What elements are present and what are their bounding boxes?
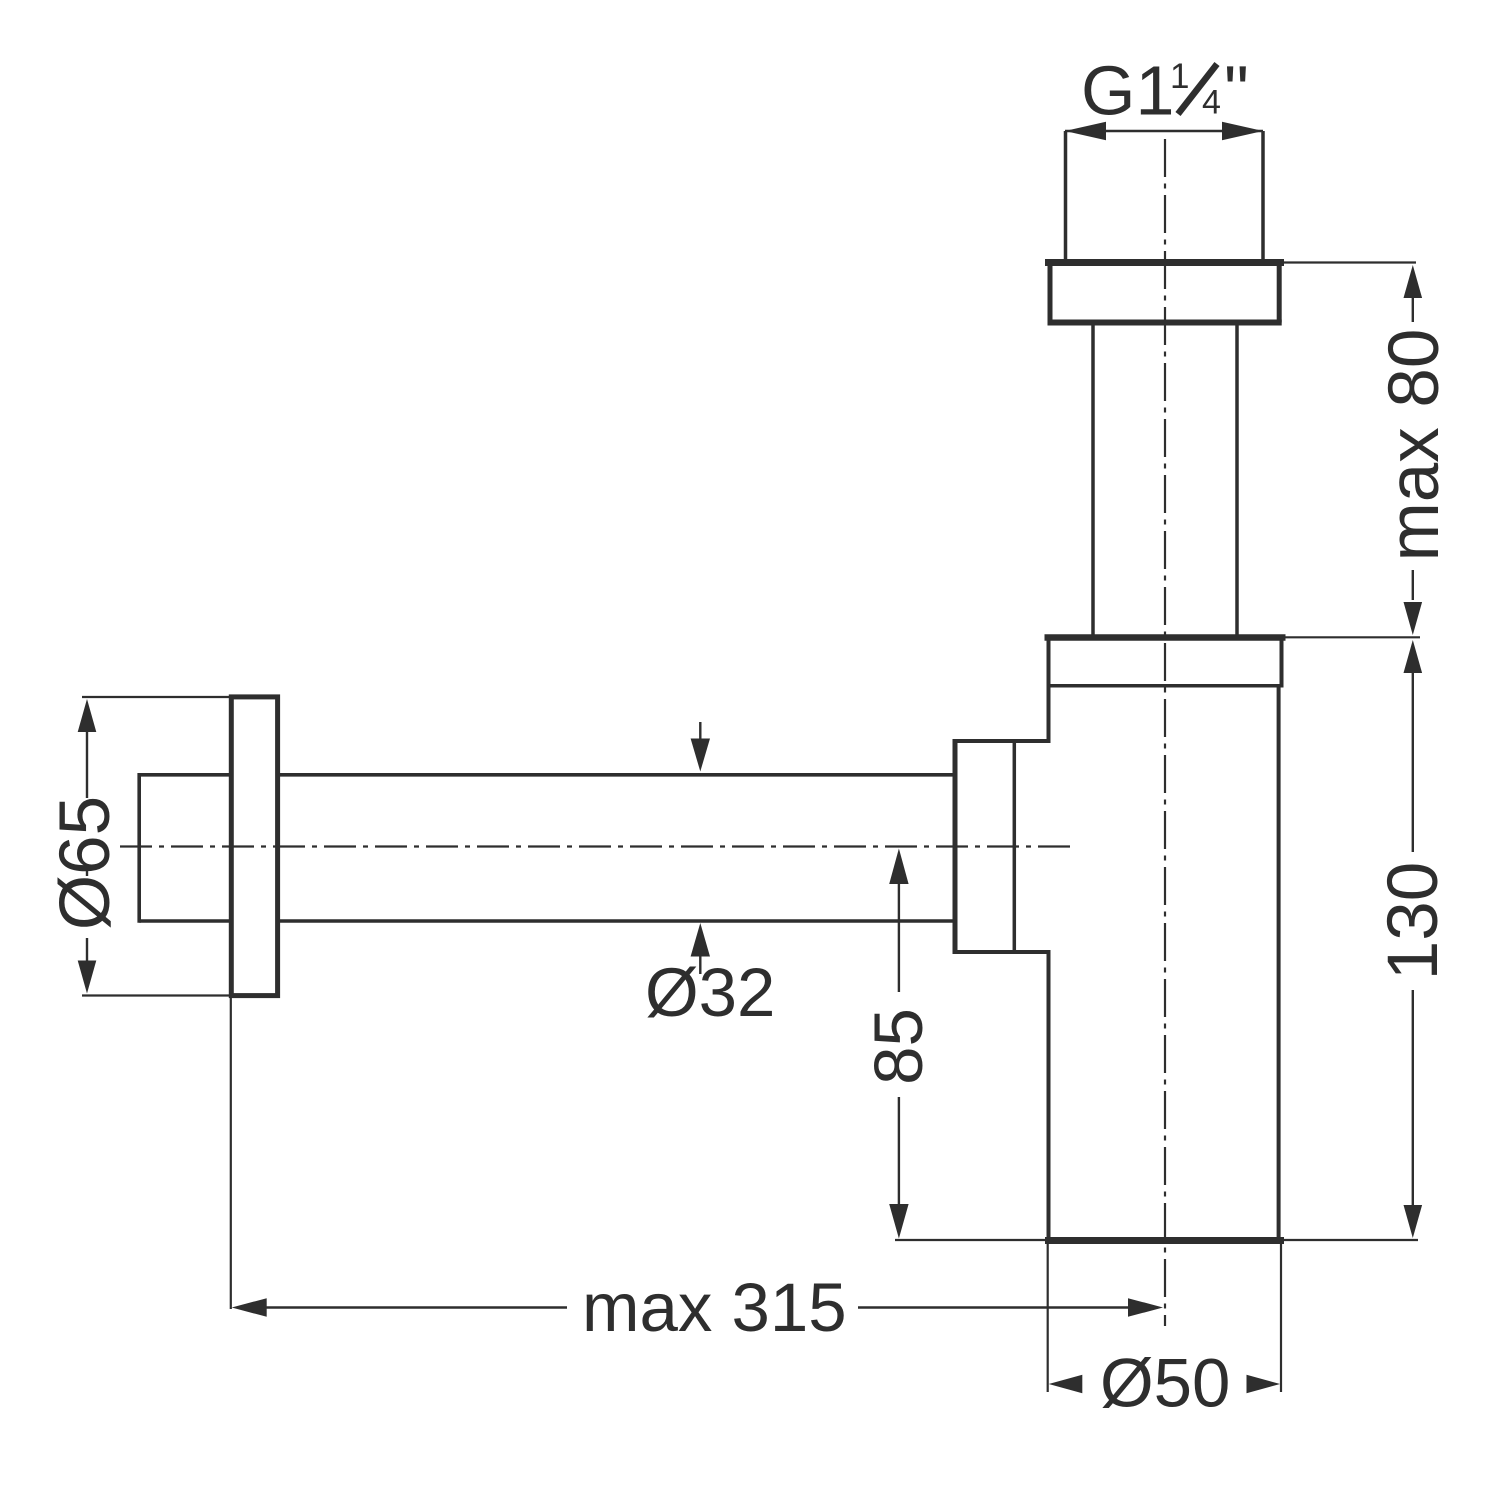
svg-text:Ø65: Ø65 — [46, 796, 125, 930]
svg-text:85: 85 — [860, 1008, 937, 1085]
svg-text:Ø50: Ø50 — [1100, 1345, 1230, 1422]
svg-text:": " — [1224, 52, 1249, 130]
svg-text:max 315: max 315 — [582, 1269, 847, 1346]
svg-text:max 80: max 80 — [1375, 329, 1454, 562]
svg-text:130: 130 — [1374, 862, 1453, 980]
svg-text:4: 4 — [1202, 84, 1221, 122]
svg-text:G1: G1 — [1081, 52, 1174, 130]
svg-text:1: 1 — [1170, 57, 1189, 96]
svg-text:Ø32: Ø32 — [645, 954, 775, 1031]
